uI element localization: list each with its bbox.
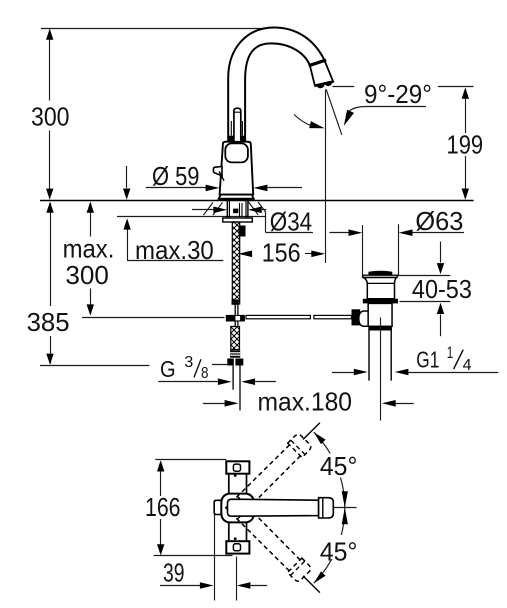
supply tube diameter dim — [158, 381, 218, 383]
base plinth — [219, 195, 254, 199]
svg-text:166: 166 — [145, 492, 181, 522]
label 45 down — [318, 535, 360, 559]
svg-text:G1: G1 — [416, 347, 439, 373]
svg-text:G: G — [160, 356, 176, 382]
svg-text:300: 300 — [31, 102, 70, 132]
svg-text:39: 39 — [163, 557, 185, 587]
lever centerline — [333, 507, 357, 509]
dimension 385 line — [50, 203, 52, 306]
deck hatch left — [203, 203, 213, 216]
dim 59 arrows — [146, 187, 207, 189]
svg-text:45°: 45° — [320, 451, 358, 481]
dim 40-53 — [396, 275, 450, 277]
svg-text:Ø 59: Ø 59 — [152, 161, 200, 191]
dashed lever up45 — [224, 433, 312, 521]
spout axis line — [325, 89, 327, 263]
svg-text:max.180: max.180 — [258, 386, 353, 416]
dim max.180 — [203, 403, 225, 405]
popup rod upper hatched — [232, 222, 239, 304]
label diameter 34 frame — [265, 211, 267, 232]
neck lower — [228, 522, 230, 541]
dimension max300 line — [90, 203, 92, 237]
faucet body — [220, 142, 254, 195]
mount barrel — [221, 494, 254, 523]
svg-text:300: 300 — [65, 260, 109, 290]
label 45 up — [318, 454, 360, 478]
deck underside line — [117, 216, 266, 218]
top flange square — [226, 461, 249, 473]
dim 166 line — [160, 462, 162, 496]
swing arc up — [314, 432, 345, 508]
dashed lever down45 — [224, 494, 312, 582]
aerator — [310, 60, 333, 86]
svg-text:45°: 45° — [320, 536, 358, 566]
shank nut — [223, 218, 253, 222]
index dots — [234, 474, 237, 476]
popup rod lower hatched — [231, 327, 240, 350]
aerator face — [315, 82, 333, 86]
tube inner lines — [230, 121, 232, 136]
svg-text:max.30: max.30 — [135, 235, 214, 265]
deck line — [40, 200, 474, 202]
side lever — [213, 167, 222, 176]
drain plug cap — [368, 271, 392, 276]
rod cross fitting — [232, 300, 239, 305]
svg-text:40-53: 40-53 — [412, 274, 472, 304]
neck upper — [228, 474, 230, 494]
dimension 199 — [438, 86, 474, 88]
drain tailpipe — [368, 331, 370, 381]
rod side fitting — [239, 226, 246, 237]
svg-text:4: 4 — [463, 357, 472, 374]
rod clamp — [352, 309, 361, 325]
label 9-29 leader — [333, 86, 355, 88]
svg-text:max.: max. — [63, 233, 115, 263]
dim 166 refs — [155, 459, 226, 461]
top reference line — [41, 28, 277, 30]
max30 lower leader — [127, 221, 129, 260]
dimension 156 — [238, 251, 252, 258]
385 bottom reference line — [40, 365, 150, 367]
horizontal popup rod — [246, 315, 310, 318]
spout inner edge — [245, 43, 310, 141]
lever stick — [234, 108, 241, 142]
swivel arc — [294, 115, 312, 126]
tube joint bands — [228, 136, 233, 142]
swing arc down — [314, 508, 345, 584]
bottom flange square — [226, 541, 249, 553]
dimension 300 line — [49, 30, 51, 101]
lever down45 axis ray — [303, 576, 320, 593]
lever up45 axis ray — [303, 423, 320, 440]
G38 nut — [227, 359, 243, 366]
svg-text:Ø34: Ø34 — [270, 206, 312, 236]
rod reference line — [82, 317, 225, 319]
dim 63 arrows — [330, 232, 351, 234]
dim 63 extension lines — [362, 225, 364, 276]
drain neck — [364, 278, 397, 299]
spout band — [309, 60, 326, 66]
svg-text:9°-29°: 9°-29° — [364, 79, 432, 109]
body cover plate — [225, 143, 248, 162]
dim 34 arrows — [192, 209, 214, 211]
dim G1 1/4 — [332, 372, 355, 374]
spout outer edge — [228, 28, 324, 142]
drain union band — [368, 326, 392, 330]
aerator outlets — [317, 83, 325, 89]
horizontal lever — [228, 499, 319, 516]
svg-text:8: 8 — [201, 365, 209, 382]
drain body — [368, 303, 392, 326]
rod nut — [230, 350, 240, 357]
spout silhouette — [228, 28, 333, 142]
drain oring — [363, 299, 398, 304]
spout tilt line — [326, 89, 342, 134]
dim 39 extension lines — [214, 515, 216, 601]
svg-text:1: 1 — [447, 344, 454, 362]
clamp housing — [359, 311, 369, 326]
svg-text:385: 385 — [27, 307, 70, 337]
supply tubes — [232, 366, 234, 390]
svg-text:156: 156 — [262, 238, 301, 268]
drain axis line — [380, 318, 382, 421]
lever cap — [319, 498, 334, 518]
lever cap ring — [322, 498, 324, 518]
dim 39 — [160, 585, 201, 587]
deck hatch right — [249, 202, 259, 215]
svg-text:199: 199 — [447, 129, 484, 159]
svg-text:Ø63: Ø63 — [415, 206, 463, 236]
drain plug lip — [363, 275, 397, 277]
max30 upper leader — [126, 166, 128, 188]
shank — [226, 201, 228, 218]
svg-text:3: 3 — [184, 354, 193, 371]
spout outlet tab — [214, 500, 226, 514]
